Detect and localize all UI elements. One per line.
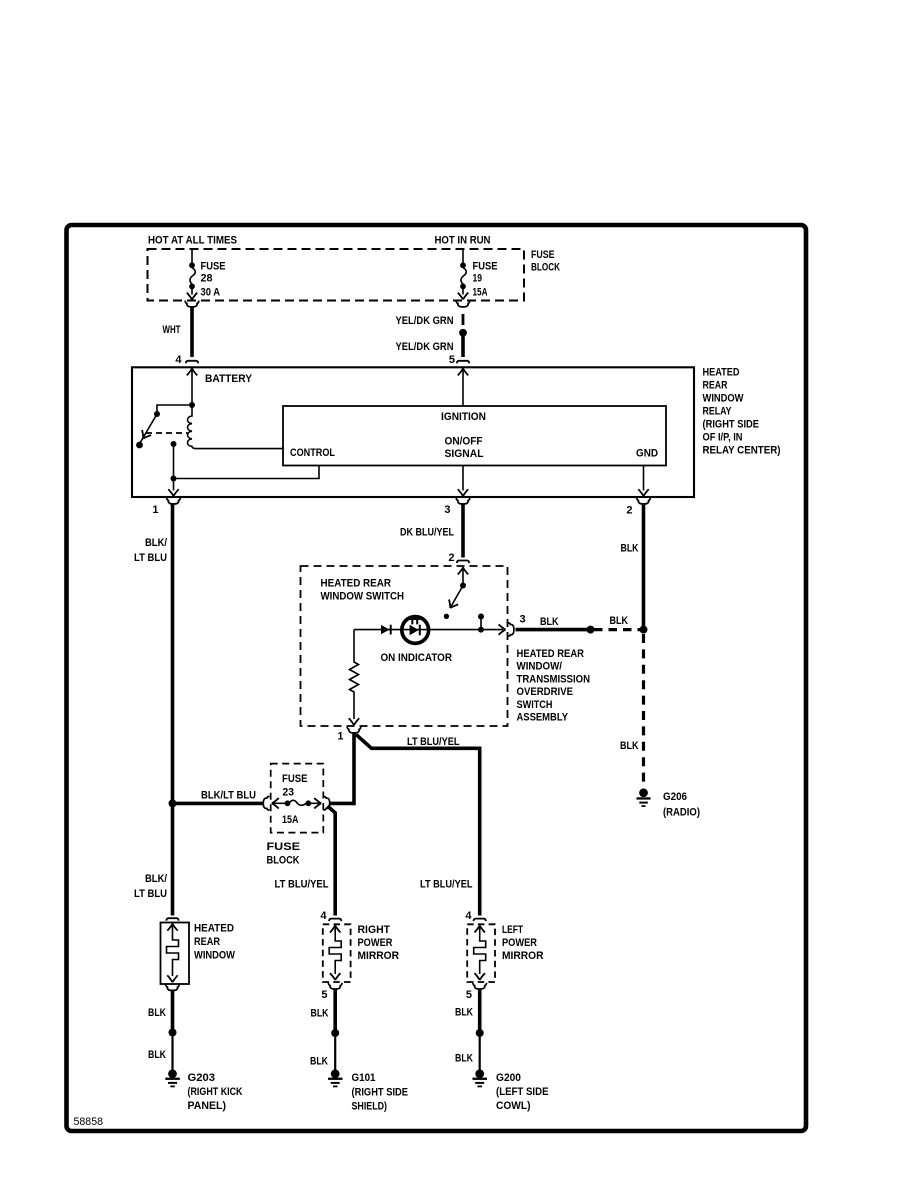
svg-text:2: 2 bbox=[626, 505, 632, 517]
svg-text:DK BLU/YEL: DK BLU/YEL bbox=[400, 527, 454, 539]
svg-text:IGNITION: IGNITION bbox=[441, 411, 486, 423]
svg-text:BLK: BLK bbox=[310, 1056, 328, 1068]
wire BLK col1 bbox=[171, 991, 175, 1033]
wire signal pin 3 stem bbox=[462, 466, 464, 491]
svg-text:ON INDICATOR: ON INDICATOR bbox=[381, 652, 453, 664]
fuse F28 30A bbox=[187, 250, 197, 299]
wire BLK relay pin2 down bbox=[642, 505, 646, 630]
splice dot col3 bbox=[476, 1029, 484, 1037]
relay switch contact dot bbox=[136, 442, 143, 449]
connector cup relay pin 3 bbox=[456, 498, 470, 504]
arrow down relay pin 2 bbox=[638, 489, 648, 496]
svg-text:RELAY: RELAY bbox=[703, 406, 733, 418]
svg-text:FUSE: FUSE bbox=[282, 773, 308, 785]
ground G101 symbol bbox=[328, 1069, 343, 1087]
svg-text:FUSE: FUSE bbox=[267, 841, 301, 853]
svg-text:23: 23 bbox=[283, 787, 295, 799]
wire WHT from fuse 28 to relay pin 4 bbox=[190, 308, 194, 358]
connector cup right mirror bottom bbox=[328, 983, 342, 989]
svg-text:58858: 58858 bbox=[74, 1116, 104, 1128]
wire BLK col1 lower bbox=[171, 1037, 173, 1071]
ground G206 symbol bbox=[637, 788, 651, 807]
wire BLK col2 lower bbox=[334, 1037, 336, 1070]
relay switch pivot dot bbox=[154, 411, 160, 417]
svg-text:POWER: POWER bbox=[358, 937, 393, 949]
ground G203 symbol bbox=[165, 1069, 180, 1087]
right power mirror dashed box bbox=[323, 924, 351, 982]
svg-text:30 A: 30 A bbox=[201, 287, 221, 299]
connector bar at relay pin 4 bbox=[186, 361, 198, 364]
splice dot S2 bbox=[587, 626, 595, 634]
arrow left fuse 23 entry bbox=[272, 798, 279, 808]
arrow down inside right mirror bbox=[330, 973, 340, 980]
svg-text:(RIGHT SIDE: (RIGHT SIDE bbox=[352, 1087, 409, 1099]
node BLK junction G206 branch bbox=[640, 626, 648, 634]
connector bar left mirror top bbox=[474, 919, 486, 922]
svg-text:BLOCK: BLOCK bbox=[531, 262, 560, 274]
right mirror heater element bbox=[329, 925, 341, 967]
page border frame bbox=[67, 225, 807, 1131]
wire YEL/DK GRN lower segment bbox=[461, 337, 465, 358]
svg-text:LT BLU/YEL: LT BLU/YEL bbox=[420, 879, 473, 891]
svg-text:SWITCH: SWITCH bbox=[517, 699, 553, 711]
arrow up inside relay pin 5 bbox=[458, 369, 468, 376]
node pin1 junction bbox=[171, 476, 177, 482]
wire contact to main line bbox=[480, 617, 482, 630]
connector cup switch pin 3 bbox=[508, 623, 514, 637]
svg-text:1: 1 bbox=[337, 731, 343, 743]
svg-text:ON/OFF: ON/OFF bbox=[445, 436, 483, 448]
wire BLK col2 bbox=[333, 990, 337, 1034]
svg-text:WINDOW/: WINDOW/ bbox=[517, 661, 563, 673]
svg-text:2: 2 bbox=[448, 552, 454, 564]
ground G200 symbol bbox=[473, 1069, 488, 1087]
arrow up inside relay pin 4 bbox=[187, 369, 197, 376]
svg-text:BLK: BLK bbox=[610, 615, 629, 627]
wire DK BLU/YEL relay pin3 to switch bbox=[461, 505, 465, 558]
svg-text:HOT AT ALL TIMES: HOT AT ALL TIMES bbox=[148, 235, 237, 247]
wire gnd pin 2 stem bbox=[643, 466, 645, 491]
svg-text:HEATED: HEATED bbox=[194, 923, 234, 935]
LED diode bar bbox=[419, 625, 421, 636]
connector bar heated rear window top bbox=[166, 918, 178, 921]
svg-text:4: 4 bbox=[465, 910, 472, 922]
svg-text:BLK/: BLK/ bbox=[145, 537, 167, 549]
svg-text:WINDOW: WINDOW bbox=[194, 950, 236, 962]
connector below fuse 19 bbox=[456, 301, 470, 307]
svg-text:MIRROR: MIRROR bbox=[358, 950, 400, 962]
connector cup switch pin 1 bbox=[347, 727, 361, 733]
svg-text:YEL/DK GRN: YEL/DK GRN bbox=[396, 341, 454, 353]
svg-text:1: 1 bbox=[152, 504, 158, 516]
heated rear window switch dashed box bbox=[301, 566, 508, 726]
svg-text:TRANSMISSION: TRANSMISSION bbox=[517, 673, 591, 685]
wire stem right mirror bottom bbox=[334, 967, 336, 974]
left mirror heater element bbox=[474, 925, 486, 967]
wire branch down to right power mirror bbox=[328, 806, 336, 916]
svg-text:5: 5 bbox=[449, 354, 455, 366]
svg-text:MIRROR: MIRROR bbox=[502, 950, 544, 962]
svg-text:BLK: BLK bbox=[311, 1008, 329, 1020]
svg-text:WINDOW SWITCH: WINDOW SWITCH bbox=[321, 591, 405, 603]
arrow down inside left mirror bbox=[475, 973, 485, 980]
arrow down switch pin 1 bbox=[349, 718, 359, 725]
fuse block dashed box bbox=[148, 249, 525, 301]
svg-text:BLK: BLK bbox=[455, 1007, 473, 1019]
svg-text:BATTERY: BATTERY bbox=[205, 373, 253, 385]
node contact on line bbox=[478, 627, 484, 633]
wire pin1 stem bbox=[173, 479, 175, 491]
wire junction to control signal box bbox=[174, 466, 320, 479]
node battery junction bbox=[189, 402, 195, 408]
svg-text:BLK: BLK bbox=[148, 1007, 166, 1019]
svg-text:LT BLU: LT BLU bbox=[134, 552, 167, 564]
splice dot col1 bbox=[169, 1029, 177, 1037]
svg-text:HEATED REAR: HEATED REAR bbox=[321, 578, 392, 590]
connector cup relay pin 2 bbox=[637, 498, 651, 504]
svg-text:BLK: BLK bbox=[621, 543, 639, 555]
svg-text:PANEL): PANEL) bbox=[188, 1100, 227, 1112]
svg-text:LT BLU/YEL: LT BLU/YEL bbox=[275, 879, 329, 891]
svg-text:SIGNAL: SIGNAL bbox=[445, 448, 484, 460]
relay coil L1 bbox=[188, 405, 284, 449]
heated rear window grid element bbox=[167, 924, 179, 968]
svg-text:19: 19 bbox=[473, 273, 483, 285]
arrow down relay pin 3 bbox=[458, 489, 468, 496]
switch blade bbox=[451, 586, 463, 607]
wire fuse 23 exit to pin1 node bbox=[329, 802, 354, 806]
switch blade arrowhead bbox=[446, 600, 458, 611]
svg-text:4: 4 bbox=[320, 910, 327, 922]
splice dot col2 bbox=[331, 1029, 339, 1037]
resistor R1 in switch bbox=[350, 630, 359, 719]
diode D1 bbox=[381, 625, 391, 635]
svg-text:4: 4 bbox=[175, 354, 182, 366]
wire branch to left power mirror bbox=[356, 735, 480, 916]
node fuse23 feed junction bbox=[169, 799, 177, 807]
wire switch pin 2 stem bbox=[462, 567, 464, 586]
svg-text:BLK: BLK bbox=[620, 740, 639, 752]
svg-text:G203: G203 bbox=[188, 1072, 216, 1084]
svg-text:BLK/: BLK/ bbox=[145, 873, 167, 885]
connector bar at relay pin 5 bbox=[457, 361, 469, 364]
svg-text:3: 3 bbox=[520, 614, 526, 626]
svg-text:LEFT: LEFT bbox=[502, 924, 523, 936]
svg-text:HEATED: HEATED bbox=[703, 367, 740, 379]
LED diode triangle bbox=[410, 625, 419, 636]
splice dot S1 bbox=[459, 329, 467, 337]
svg-text:POWER: POWER bbox=[502, 937, 537, 949]
connector bar right mirror top bbox=[329, 919, 341, 922]
svg-text:5: 5 bbox=[466, 989, 472, 1001]
svg-text:(LEFT SIDE: (LEFT SIDE bbox=[496, 1086, 549, 1098]
arrow up inside heated rear window bbox=[167, 924, 177, 931]
svg-text:3: 3 bbox=[444, 504, 450, 516]
connector cup fuse 23 entry bbox=[263, 796, 269, 810]
wire BLK col3 lower bbox=[479, 1037, 481, 1070]
left power mirror dashed box bbox=[467, 924, 495, 982]
relay mechanical link dashed bbox=[146, 432, 189, 434]
svg-text:BLK/LT BLU: BLK/LT BLU bbox=[201, 790, 256, 802]
svg-text:15A: 15A bbox=[473, 287, 488, 299]
svg-text:15A: 15A bbox=[282, 814, 299, 826]
svg-text:G200: G200 bbox=[496, 1072, 521, 1084]
wire common contact down bbox=[173, 444, 175, 479]
svg-text:HEATED REAR: HEATED REAR bbox=[517, 648, 585, 660]
svg-text:G206: G206 bbox=[663, 791, 687, 803]
arrow right fuse 23 exit bbox=[314, 798, 321, 808]
wire BLK col3 bbox=[478, 990, 482, 1034]
svg-text:BLK: BLK bbox=[148, 1049, 166, 1061]
relay inner control box bbox=[283, 406, 666, 466]
svg-text:LT BLU: LT BLU bbox=[134, 888, 167, 900]
relay switch blade arrowhead bbox=[139, 430, 151, 441]
svg-text:YEL/DK GRN: YEL/DK GRN bbox=[396, 315, 454, 327]
heated rear window element box bbox=[161, 923, 190, 985]
svg-text:SHIELD): SHIELD) bbox=[352, 1101, 388, 1113]
wire stem to bottom arrow bbox=[172, 967, 174, 976]
connector cup fuse 23 exit bbox=[323, 796, 329, 810]
wire stem left mirror bottom bbox=[479, 967, 481, 974]
relay K1 outer box bbox=[132, 367, 694, 497]
svg-text:LT BLU/YEL: LT BLU/YEL bbox=[407, 736, 460, 748]
svg-text:WINDOW: WINDOW bbox=[703, 393, 745, 405]
wire BLK/LT BLU relay pin1 down left column bbox=[171, 505, 175, 916]
svg-text:BLOCK: BLOCK bbox=[267, 855, 300, 867]
wire YEL/DK GRN dashed upper segment bbox=[462, 314, 465, 325]
relay common contact dot bbox=[171, 441, 177, 447]
arrow down relay pin 1 bbox=[168, 489, 178, 496]
arrow up inside right mirror bbox=[330, 926, 340, 933]
connector cup relay pin 1 bbox=[167, 498, 181, 504]
svg-text:REAR: REAR bbox=[703, 380, 728, 392]
arrow up inside left mirror bbox=[475, 926, 485, 933]
svg-text:RIGHT: RIGHT bbox=[358, 924, 391, 936]
LED emission marks bbox=[410, 619, 420, 624]
fuse F19 15A bbox=[458, 250, 468, 299]
svg-text:GND: GND bbox=[636, 448, 658, 460]
svg-text:FUSE: FUSE bbox=[473, 261, 498, 273]
svg-text:BLK: BLK bbox=[455, 1053, 473, 1065]
svg-text:28: 28 bbox=[201, 273, 213, 285]
svg-text:G101: G101 bbox=[352, 1072, 376, 1084]
switch blade pivot dot bbox=[460, 583, 466, 589]
wire BLK from switch pin 3 bbox=[516, 628, 591, 632]
svg-text:FUSE: FUSE bbox=[201, 261, 226, 273]
wire battery feed inside relay bbox=[191, 368, 193, 405]
fuse F23 element bbox=[272, 800, 319, 806]
arrow down inside heated rear window bbox=[167, 975, 177, 982]
svg-text:(RIGHT SIDE: (RIGHT SIDE bbox=[703, 419, 760, 431]
main wire inside switch bbox=[354, 629, 503, 631]
svg-text:HOT IN RUN: HOT IN RUN bbox=[435, 235, 491, 247]
svg-text:(RADIO): (RADIO) bbox=[663, 807, 700, 819]
svg-text:OF I/P, IN: OF I/P, IN bbox=[703, 432, 743, 444]
svg-text:COWL): COWL) bbox=[496, 1100, 531, 1112]
svg-text:WHT: WHT bbox=[163, 324, 181, 336]
svg-text:REAR: REAR bbox=[194, 936, 220, 948]
svg-text:RELAY CENTER): RELAY CENTER) bbox=[703, 445, 781, 457]
relay switch blade bbox=[140, 414, 157, 443]
connector cup left mirror bottom bbox=[473, 983, 487, 989]
arrow up inside switch pin 2 bbox=[458, 568, 468, 575]
wire ignition pin 5 inside bbox=[462, 368, 464, 406]
wire to switch pivot bbox=[157, 405, 192, 412]
switch assembly label block bbox=[517, 648, 591, 724]
LED ON indicator circle bbox=[402, 617, 429, 644]
wire switch pin1 down to fuse node bbox=[352, 733, 356, 805]
relay name label block bbox=[703, 367, 781, 457]
svg-text:(RIGHT KICK: (RIGHT KICK bbox=[188, 1086, 243, 1098]
wire BLK/LT BLU feed to fuse 23 bbox=[173, 802, 264, 806]
svg-text:FUSE: FUSE bbox=[531, 249, 555, 261]
arrow right switch pin 3 bbox=[499, 624, 506, 634]
switch blade tip dot bbox=[444, 614, 449, 619]
svg-text:5: 5 bbox=[321, 989, 327, 1001]
wire BLK dashed segment bbox=[594, 628, 640, 631]
svg-text:BLK: BLK bbox=[540, 616, 559, 628]
connector cup heated rear window bottom bbox=[166, 984, 180, 990]
connector below fuse 28 bbox=[185, 301, 199, 307]
wire BLK dashed to G206 bbox=[642, 634, 645, 783]
fuse 23 dashed box bbox=[271, 764, 324, 833]
svg-text:OVERDRIVE: OVERDRIVE bbox=[517, 686, 574, 698]
switch contact dot bbox=[478, 614, 484, 620]
svg-text:ASSEMBLY: ASSEMBLY bbox=[517, 712, 569, 724]
connector bar switch pin 2 bbox=[457, 561, 469, 564]
svg-text:CONTROL: CONTROL bbox=[290, 447, 335, 459]
